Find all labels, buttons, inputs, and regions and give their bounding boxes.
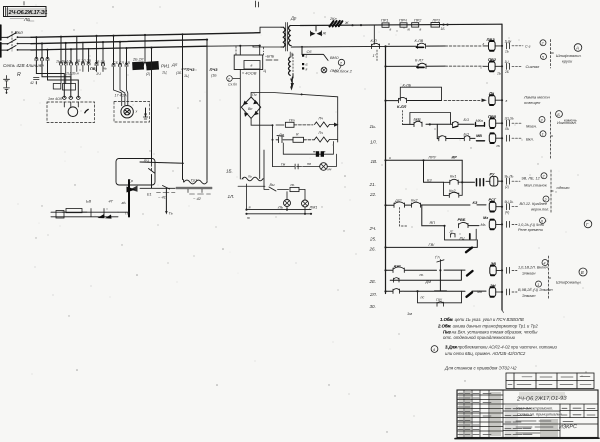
rung 3 wire	[384, 100, 480, 102]
svg-text:ю: ю	[247, 216, 250, 220]
Тр1 primary winding	[184, 178, 208, 184]
svg-text:ПЧ3: ПЧ3	[210, 67, 219, 72]
svg-text:2Б 2Л: 2Б 2Л	[132, 58, 144, 62]
motor M1	[64, 102, 88, 116]
misc relay labels band	[39, 60, 182, 76]
sheet left-edge mark	[0, 25, 2, 57]
svg-text:ПУ/: ПУ/	[436, 298, 443, 302]
callout Г	[584, 220, 592, 228]
svg-text:Шлифовальн.: Шлифовальн.	[556, 53, 582, 58]
svg-text:(1Б: (1Б	[211, 74, 217, 78]
svg-text:в: в	[390, 28, 392, 32]
rung 11 wire	[384, 269, 465, 271]
wire drops x96-103 spare taps	[95, 36, 104, 72]
relay coil ПВ5	[488, 114, 502, 128]
control return line 5V	[291, 45, 385, 48]
svg-text:ПР3: ПР3	[433, 18, 441, 22]
terminal marks rung3	[506, 95, 551, 105]
svg-text:26.: 26.	[369, 247, 376, 252]
svg-text:Мал.станок: Мал.станок	[524, 183, 548, 188]
contact ДП	[394, 199, 405, 208]
svg-text:пь: пь	[420, 273, 424, 277]
svg-text:Тр1: Тр1	[191, 178, 198, 183]
rung 10 wire	[384, 240, 477, 252]
svg-text:1В.: 1В.	[371, 159, 378, 164]
capacitor loop row	[283, 142, 333, 157]
svg-text:В: В	[581, 270, 584, 275]
bus L2	[31, 40, 207, 44]
rung 6 wire	[384, 155, 463, 183]
РЩ labels	[86, 200, 129, 216]
notes dark lead words	[437, 317, 457, 350]
svg-text:ю: ю	[408, 27, 411, 31]
sub rung 2Л wire	[390, 270, 461, 284]
svg-text:ЛЬ: ЛЬ	[504, 127, 509, 131]
svg-text:пс: пс	[421, 296, 425, 300]
svg-text:Е1: Е1	[147, 193, 152, 197]
demagnetizer contact arrows	[127, 186, 138, 193]
svg-text:я: я	[305, 67, 308, 71]
svg-text:нв: нв	[307, 162, 311, 166]
svg-text:1Ц: 1Ц	[505, 60, 510, 64]
svg-text:Вп: Вп	[248, 107, 252, 111]
svg-text:нч: нч	[328, 168, 332, 172]
switch Сб tap	[301, 46, 339, 61]
svg-text:1Б.: 1Б.	[226, 169, 233, 174]
svg-text:ЗЦ,ЗЬ: ЗЦ,ЗЬ	[505, 117, 514, 121]
holding loop К-ЛБ	[400, 84, 441, 101]
button Кн4	[411, 199, 421, 208]
relay coil ЭН	[489, 284, 502, 297]
svg-text:отс. отдельной принадлежность: отс. отдельной принадлежностью	[443, 335, 516, 340]
callout 2c	[543, 196, 549, 202]
svg-text:и: и	[388, 42, 390, 46]
branch РН1	[144, 35, 170, 69]
relay coil ПВ2	[483, 57, 502, 76]
resistor bar РЩ rails	[51, 212, 129, 217]
svg-text:К-ЛБ: К-ЛБ	[403, 84, 412, 88]
resistor row R2 / rheostat	[276, 117, 339, 128]
sheet info cells	[560, 422, 598, 425]
wire 1Б from RC network to lamp switch	[263, 150, 265, 187]
svg-text:Тр: Тр	[129, 179, 133, 183]
svg-text:Мь: Мь	[481, 223, 486, 227]
svg-text:22.: 22.	[369, 192, 376, 197]
transformer Др core	[286, 23, 288, 52]
relay coil РСГ	[489, 198, 503, 212]
rung 4 wire	[402, 123, 474, 125]
svg-text:Б/1: Б/1	[464, 118, 470, 122]
svg-text:ГВ/: ГВ/	[429, 243, 436, 247]
terminal marks rung5	[507, 135, 534, 141]
bus L1	[31, 33, 260, 38]
svg-text:пь: пь	[497, 144, 501, 148]
t° stem to rung 12	[435, 270, 447, 291]
svg-text:Схема эл. принципиальн.: Схема эл. принципиальн.	[517, 412, 563, 417]
capacitor column at left margin	[4, 76, 10, 94]
title block frame	[457, 390, 598, 438]
arrow below Др secondary	[291, 77, 294, 88]
svg-text:1: 1	[537, 283, 539, 287]
wire drop L3 to contactor ПМ1	[47, 50, 49, 59]
svg-text:Б/1: Б/1	[464, 132, 470, 136]
svg-text:2В 1Ц: 2В 1Ц	[94, 60, 105, 64]
DC negative tap from bridge	[251, 118, 273, 126]
rectifier feed wires	[240, 46, 259, 179]
svg-text:ВМО: ВМО	[330, 56, 339, 60]
РЩ arrow contacts dark	[98, 214, 112, 219]
disconnect switch ВК1 phase B	[2, 39, 32, 45]
button Кн1	[444, 175, 463, 185]
svg-text:Реле времени: Реле времени	[518, 228, 544, 232]
svg-text:Пч: Пч	[319, 117, 324, 121]
svg-text:РСГ: РСГ	[489, 198, 497, 202]
svg-text:Ж: Ж	[322, 32, 327, 36]
terminal marks rung4	[504, 117, 537, 131]
Тр1 secondary winding right	[242, 175, 263, 181]
svg-text:1,0,1В,2Л. Включ.: 1,0,1В,2Л. Включ.	[518, 266, 549, 270]
svg-text:9Ц,1Ь: 9Ц,1Ь	[505, 200, 514, 204]
svg-text:Кн2: Кн2	[449, 189, 456, 193]
bridge rectifier Вп	[241, 93, 260, 118]
svg-text:в: в	[251, 64, 253, 68]
svg-text:1Ь 1Б 1Л: 1Ь 1Б 1Л	[56, 60, 71, 64]
svg-text:гЬ: гЬ	[122, 201, 127, 205]
wires to resistor boxes РШ	[61, 65, 71, 84]
svg-text:и: и	[389, 156, 391, 160]
svg-text:9В, ЛЕ, 12: 9В, ЛЕ, 12	[522, 177, 541, 181]
svg-text:2.Обм: 2.Обм	[437, 323, 452, 328]
title block bottom edge	[455, 437, 599, 439]
transformer Др secondary	[289, 26, 301, 46]
svg-text:R: R	[17, 72, 21, 78]
RC network left bus	[272, 125, 274, 166]
svg-text:Для станков с приводом ЭТ0: Для станков с приводом ЭТ02-Ч2	[444, 366, 517, 371]
terminal marks я б г	[293, 54, 308, 74]
terminal marks rung8	[507, 221, 545, 232]
svg-text:МКн: МКн	[476, 119, 484, 123]
svg-text:Узел Электромонт.: Узел Электромонт.	[516, 406, 553, 411]
relay coil РВ	[483, 216, 502, 229]
svg-text:ПЧ3: ПЧ3	[187, 67, 196, 72]
terminal marks rung6	[505, 175, 548, 189]
button МКн	[476, 119, 485, 126]
group bracket В	[551, 170, 554, 213]
svg-text:ПРУ: ПРУ	[429, 155, 437, 159]
block reference 2 Сх.блок 2	[334, 59, 353, 73]
svg-text:Гм: Гм	[281, 163, 286, 167]
callout 5	[541, 54, 547, 60]
svg-text:ЯП: ЯП	[429, 221, 436, 225]
svg-text:КЗ: КЗ	[473, 201, 478, 205]
bus L3 extension to rectifier feed	[207, 45, 260, 48]
svg-text:1Ц 2Б н: 1Ц 2Б н	[66, 72, 79, 76]
terminal marks rung9	[507, 266, 550, 276]
wire jogs phase transposition to motor M1	[36, 61, 78, 98]
fuse ПР3	[431, 18, 445, 31]
svg-text:в: в	[420, 27, 422, 31]
wire drops to motor M2	[114, 36, 127, 65]
svg-text:ЛБ: ЛБ	[23, 17, 30, 22]
wire to block 2 with arrows	[290, 74, 293, 91]
svg-text:РИ1: РИ1	[161, 64, 170, 69]
block reference marker Сх.бл	[227, 76, 240, 87]
lamp coil Лн	[482, 90, 503, 105]
bus junction dots	[35, 33, 261, 51]
svg-text:Ж: Ж	[344, 21, 349, 25]
dashed link to rung 4	[401, 111, 403, 125]
branch to rung 5	[436, 124, 438, 138]
terminal marks rung7	[505, 200, 550, 214]
row2 capacitor and resistor	[272, 131, 338, 143]
svg-text:пь: пь	[248, 175, 252, 179]
svg-text:пь: пь	[291, 183, 295, 187]
contact К-ЛЛ	[397, 97, 407, 108]
svg-text:(2): (2)	[505, 185, 509, 189]
tap bracket ~41	[147, 193, 175, 200]
svg-text:1Ц: 1Ц	[184, 74, 189, 78]
wire drop L1 to РШ group	[60, 37, 62, 64]
note callout 4	[431, 346, 438, 353]
svg-text:нь: нь	[103, 67, 107, 71]
callout 4b	[542, 260, 548, 266]
junction dots on control line	[351, 24, 448, 27]
terminal marks rung2	[504, 60, 540, 74]
svg-text:Пч: Пч	[319, 131, 324, 135]
svg-text:я: я	[248, 206, 251, 210]
svg-text:Пт: Пт	[289, 119, 295, 123]
svg-text:2Б: 2Б	[504, 70, 509, 74]
wire drop L3 to РШ group	[70, 49, 72, 63]
demagnetizer choke Тр thick lead	[129, 179, 133, 217]
group bracket Б	[551, 112, 554, 160]
switch Вкл dark blob	[329, 17, 342, 27]
relay coil ЭВ	[490, 262, 502, 275]
svg-text:или сети 6Бц, примен. АОЛ2: или сети 6Бц, примен. АОЛ2Б-42/ОЛС2	[445, 351, 526, 356]
svg-text:1Л.: 1Л.	[228, 194, 235, 199]
rung 9 wire	[422, 205, 479, 227]
resistor box РШ1	[53, 84, 61, 90]
revision table	[506, 373, 594, 389]
document stamp box	[4, 2, 48, 23]
terminal marks rung10	[507, 288, 554, 298]
motor M2 dashed enclosure	[114, 102, 150, 123]
svg-text:1.Обм: 1.Обм	[440, 317, 454, 322]
svg-text:Б: Б	[557, 112, 560, 117]
svg-text:круги: круги	[562, 59, 573, 64]
contact БП1	[414, 118, 423, 127]
svg-text:Пч: Пч	[252, 93, 257, 97]
svg-text:1: 1	[542, 133, 544, 137]
demagnetizing loop box	[116, 159, 155, 186]
svg-text:МВ: МВ	[476, 134, 482, 138]
capacitor box МБГЧ	[234, 55, 266, 76]
svg-text:одного: одного	[557, 185, 571, 190]
wire drops x77-89 fuse taps	[77, 36, 89, 63]
rail terminal m	[407, 310, 504, 316]
wire from control line to К-Л contact	[373, 25, 375, 44]
choke Др feed jog	[260, 27, 281, 33]
wire L3 down to Тр1	[151, 48, 153, 163]
wire to coil РУ	[462, 179, 483, 186]
motor M2	[121, 106, 138, 118]
svg-text:Ть: Ть	[125, 212, 129, 216]
drawing title	[516, 406, 563, 417]
svg-text:КЗ: КЗ	[427, 178, 432, 182]
rung 8 wire	[384, 204, 486, 206]
disconnect switch ВК1 phase A	[2, 33, 32, 39]
svg-text:1Ь: 1Ь	[505, 50, 509, 54]
svg-text:Ц: Ц	[264, 69, 267, 73]
contact К-ЛВ	[415, 39, 426, 48]
contact АЭ1	[393, 265, 405, 273]
svg-text:Вкл.: Вкл.	[526, 136, 534, 141]
thermal contact t°	[373, 50, 378, 62]
title block left grid	[457, 390, 503, 438]
relay coil РУ double	[486, 173, 502, 186]
svg-text:25.: 25.	[369, 237, 376, 242]
svg-text:1Ь: 1Ь	[497, 72, 501, 76]
svg-text:3.Для: 3.Для	[445, 345, 457, 350]
contact Б/1 rung5	[464, 132, 470, 140]
svg-text:ДЛ: ДЛ	[171, 63, 178, 67]
svg-text:2Л.: 2Л.	[369, 292, 377, 297]
callout 3	[539, 117, 545, 123]
rung 7 branch	[422, 159, 443, 182]
button МВ dark	[476, 134, 485, 141]
wire drop L1 to contactor ПМ1	[35, 37, 37, 59]
rung 1 wire	[384, 42, 481, 47]
disconnect switch ВК1 phase C	[2, 46, 32, 52]
callout 2b	[541, 173, 547, 179]
contact РВБ	[458, 218, 469, 228]
lamp row with signal lamp	[273, 154, 337, 171]
svg-text:1°: 1°	[373, 54, 377, 58]
group bracket Г	[549, 256, 552, 300]
bottom return rail 10	[245, 213, 312, 220]
contactor СБ СЛ СВ contacts	[112, 61, 130, 67]
wires into motor M2	[114, 67, 128, 106]
title block center rows	[503, 404, 598, 438]
Тр1 secondary taps ~42	[188, 189, 211, 201]
svg-text:Мэ: Мэ	[483, 216, 488, 220]
РЩ left terminal box	[56, 211, 64, 219]
svg-text:1,0,2Ь,(Ч) 5сек: 1,0,2Ь,(Ч) 5сек	[518, 223, 544, 227]
svg-text:ИЗКРС: ИЗКРС	[559, 424, 577, 430]
contact rung5	[439, 136, 446, 141]
svg-text:4Т: 4Т	[109, 200, 114, 204]
svg-text:ЛЬ: ЛЬ	[277, 206, 284, 210]
svg-text:верхн.пол.: верхн.пол.	[531, 208, 549, 212]
switch mechanical link	[11, 32, 13, 52]
svg-text:42: 42	[30, 81, 34, 85]
svg-text:3.Для проблематики АОЛ2-4-0: 3.Для проблематики АОЛ2-4-02 при частичн…	[445, 345, 558, 350]
fuse ПР1	[381, 19, 392, 32]
svg-text:ДМ: ДМ	[425, 280, 432, 284]
control line 24V top	[300, 24, 502, 25]
svg-text:освещен: освещен	[524, 100, 541, 105]
terminal marks rung1	[505, 40, 531, 54]
svg-text:ПР1: ПР1	[381, 19, 388, 23]
svg-text:÷БПБ: ÷БПБ	[265, 55, 275, 59]
title block extra scribbles	[516, 421, 553, 433]
svg-text:С-з: С-з	[525, 45, 531, 49]
svg-text:ИР: ИР	[452, 156, 458, 160]
svg-text:Кн1: Кн1	[450, 175, 456, 179]
callout Б	[556, 111, 577, 123]
svg-text:Л°: Л°	[449, 230, 454, 234]
terminal marks БПБ	[265, 55, 278, 61]
dashed mech link	[400, 208, 408, 227]
svg-text:t°Λ: t°Λ	[435, 256, 440, 260]
svg-text:1Ь.: 1Ь.	[370, 124, 377, 129]
svg-text:Др: Др	[290, 16, 297, 21]
rung 2 wire	[384, 65, 483, 67]
svg-text:К-Л: К-Л	[371, 39, 378, 43]
svg-text:2Б 2Л 2В: 2Б 2Л 2В	[75, 59, 91, 63]
label Шлифовальные круги	[556, 53, 582, 64]
svg-text:~ 41: ~ 41	[158, 195, 166, 200]
bottom return rail 9	[245, 206, 311, 211]
capacitor pair near x36	[30, 78, 39, 86]
choke Др feed bottom	[253, 46, 281, 47]
callout 6	[540, 218, 546, 224]
svg-text:(1Б: (1Б	[176, 71, 182, 75]
relay coil ПВ4	[489, 133, 502, 148]
loop БЧ	[410, 113, 451, 125]
lit mass scale cells	[560, 404, 598, 418]
svg-text:ЬВ: ЬВ	[86, 200, 91, 204]
svg-text:Сигнал: Сигнал	[526, 64, 540, 69]
node: feed line to Тр1 left	[140, 158, 184, 163]
svg-text:ДП°: ДП°	[394, 199, 402, 203]
fuse ПРЧ	[399, 18, 411, 31]
РЩ tie wires	[91, 209, 104, 217]
contact К-Л7	[415, 59, 426, 69]
transformer Др primary	[281, 16, 297, 48]
arrow contact dark rung12	[467, 292, 473, 296]
svg-text:Элмагн: Элмагн	[522, 272, 536, 276]
svg-text:А: А	[575, 46, 579, 51]
svg-text:30.: 30.	[370, 304, 376, 309]
svg-text:в: в	[506, 99, 508, 103]
fuse labels ПВ dark	[90, 67, 101, 76]
callout 2	[540, 40, 546, 46]
svg-text:(2): (2)	[146, 72, 150, 76]
svg-text:К-ЛВ: К-ЛВ	[415, 39, 424, 43]
svg-text:ВЛ-12. Крайнее: ВЛ-12. Крайнее	[520, 202, 548, 206]
svg-text:Кн2: Кн2	[411, 199, 418, 203]
pilot lamp ЛЬ	[277, 192, 291, 210]
group bracket А	[551, 40, 554, 69]
holding loop below rung 12	[418, 291, 462, 306]
relay coil ПВЗ	[483, 37, 503, 51]
contact К-Л on feed line	[371, 39, 380, 49]
thermal overload heaters РТ1	[48, 96, 80, 101]
dropping resistor	[290, 183, 305, 192]
svg-text:Пнз на Вкл. установки тягам: Пнз на Вкл. установки тягам образом, что…	[443, 329, 538, 334]
svg-text:РУ: РУ	[490, 173, 495, 177]
thermal flag t°	[435, 256, 444, 272]
svg-text:Сх.блок 2: Сх.блок 2	[334, 69, 353, 74]
contact labels row	[56, 59, 218, 78]
holding loop below rung 9	[445, 226, 477, 241]
svg-text:Магн.: Магн.	[526, 124, 537, 129]
svg-text:~ 42: ~ 42	[193, 196, 202, 201]
svg-text:Сх.бл: Сх.бл	[228, 83, 237, 87]
svg-text:Вы: Вы	[270, 183, 275, 187]
svg-text:лн: лн	[39, 64, 44, 68]
